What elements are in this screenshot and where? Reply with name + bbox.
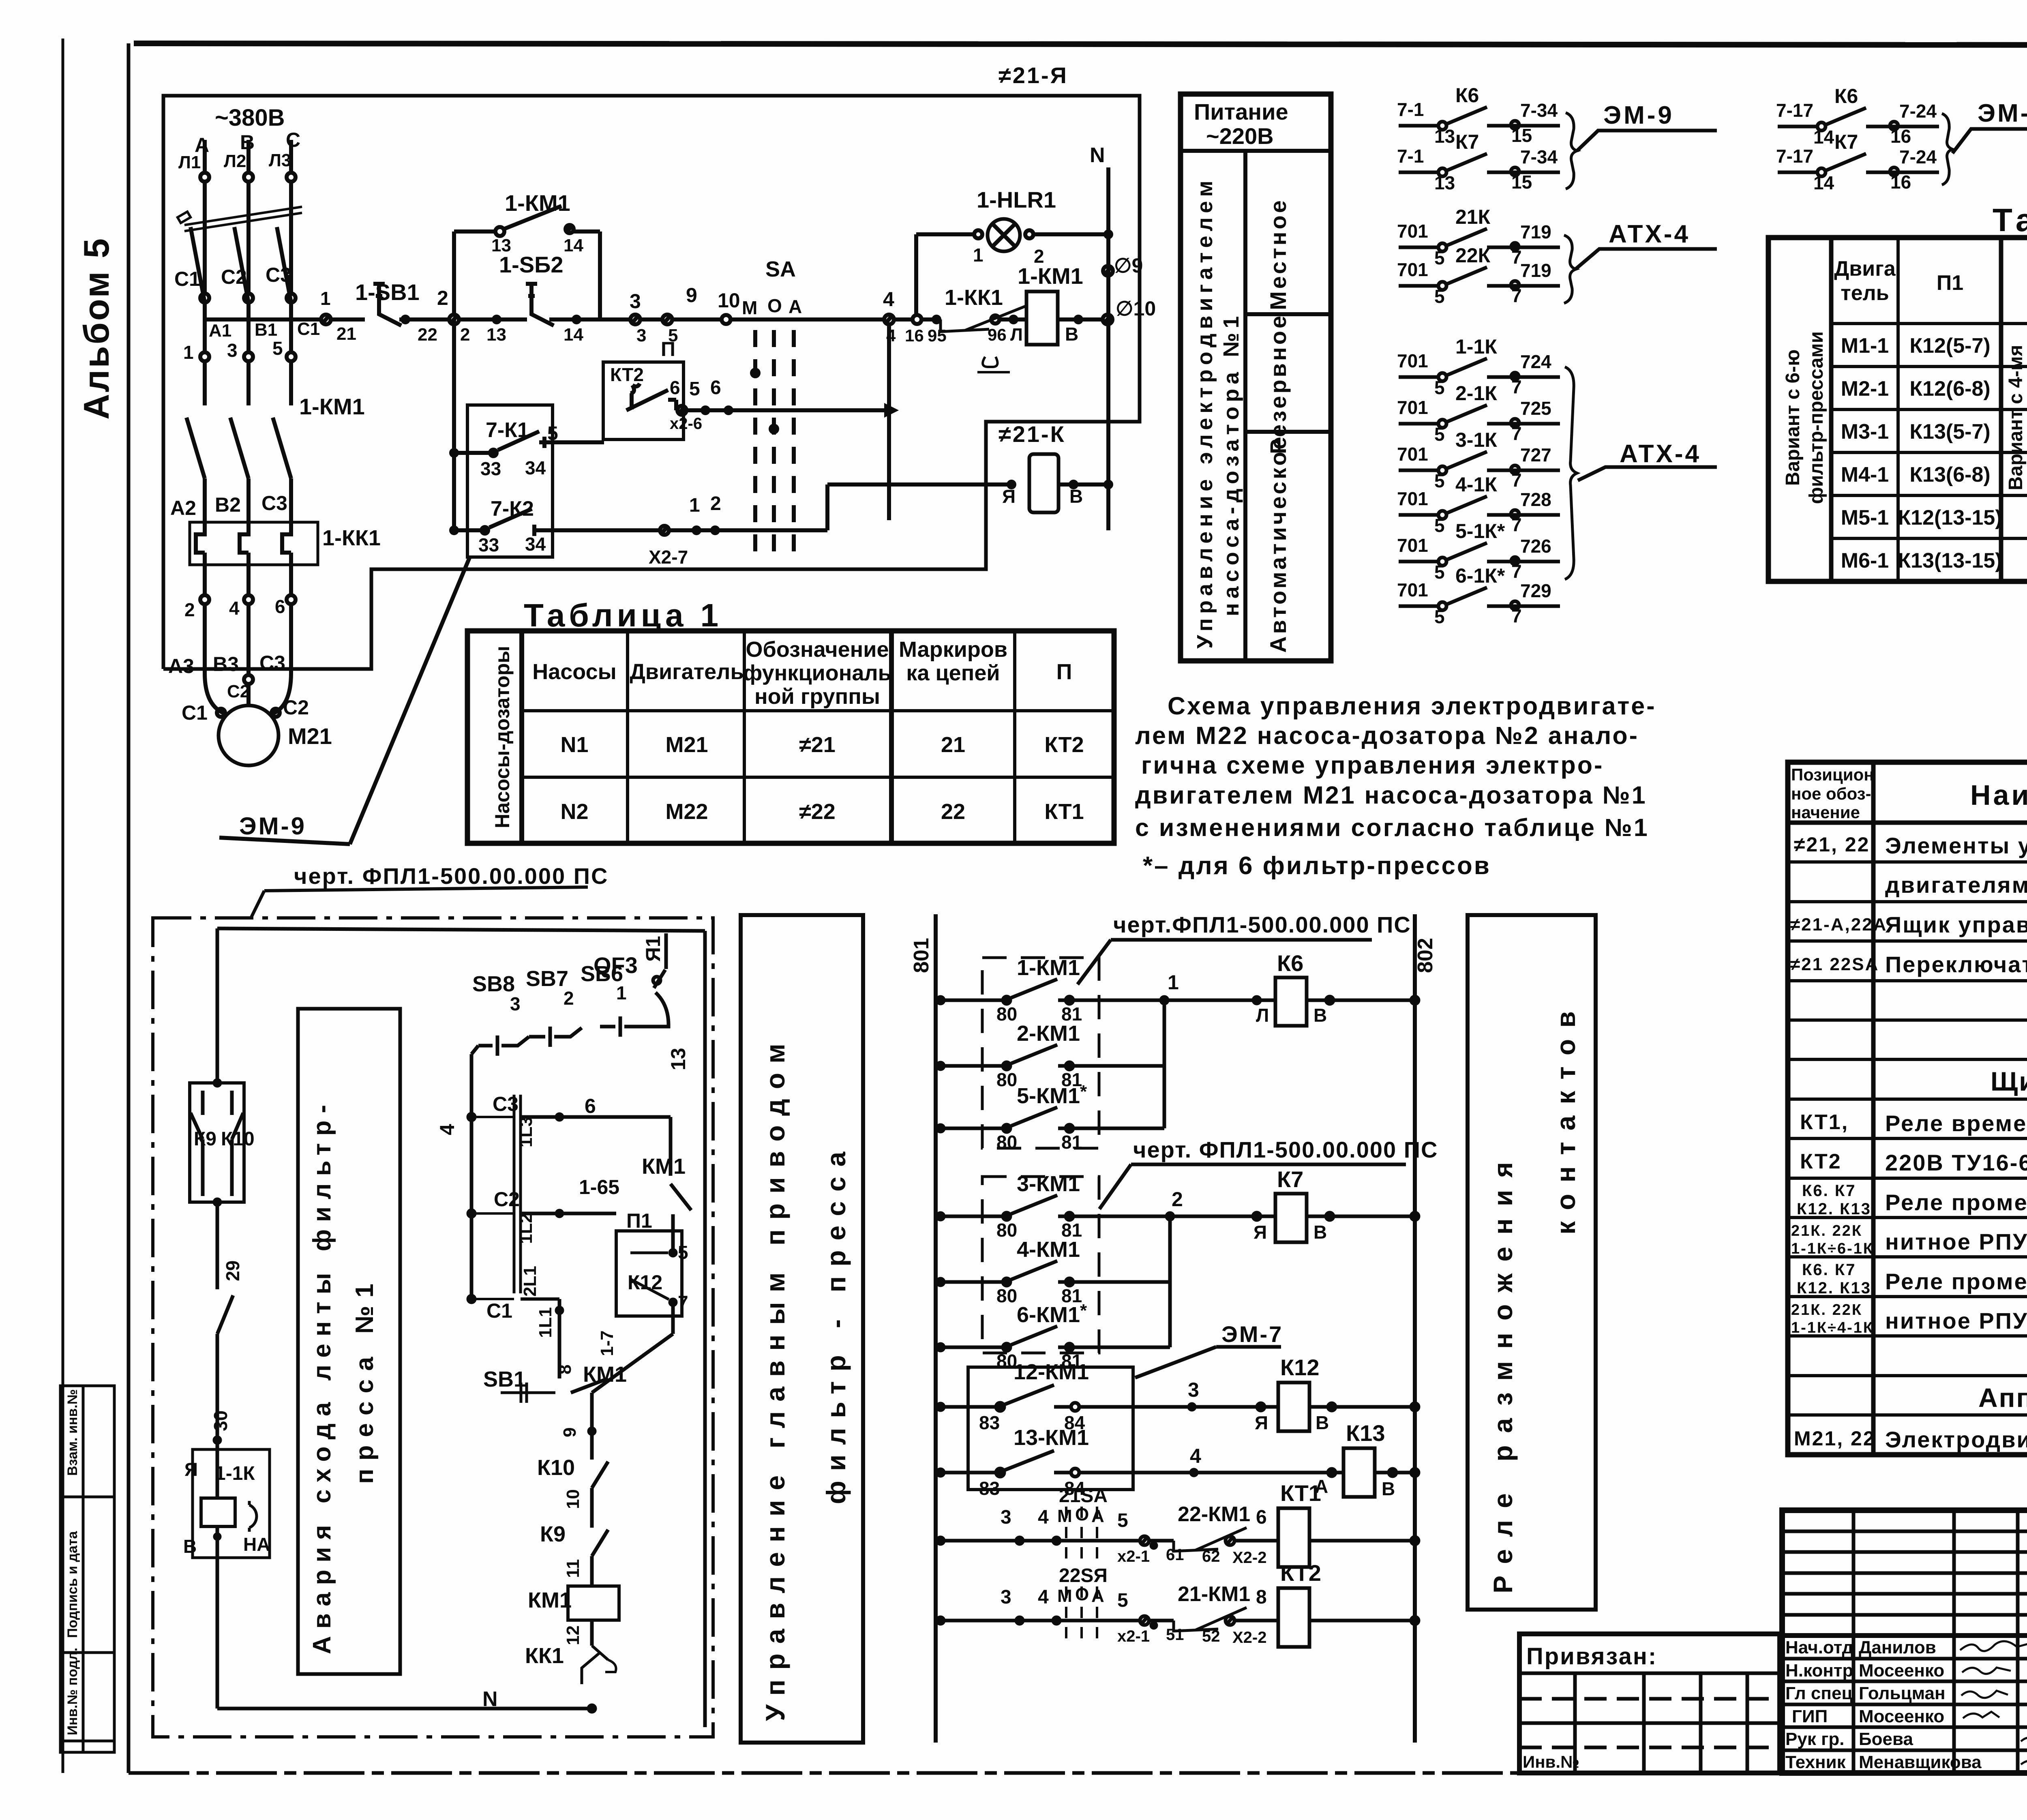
svg-text:80: 80: [996, 1069, 1017, 1090]
svg-text:ка цепей: ка цепей: [906, 661, 1000, 685]
svg-text:2L1: 2L1: [520, 1266, 540, 1297]
svg-text:8: 8: [1256, 1586, 1267, 1608]
svg-text:2: 2: [1172, 1188, 1183, 1211]
svg-text:21: 21: [336, 324, 356, 344]
svg-text:К6: К6: [1455, 84, 1479, 107]
svg-text:Местное: Местное: [1265, 198, 1291, 310]
svg-text:14: 14: [564, 236, 583, 255]
svg-text:5-1К*: 5-1К*: [1455, 520, 1505, 542]
svg-text:~380В: ~380В: [215, 105, 285, 131]
svg-text:ное обоз-: ное обоз-: [1791, 784, 1871, 803]
svg-text:4: 4: [1038, 1586, 1049, 1608]
svg-text:М21, 22: М21, 22: [1794, 1427, 1876, 1450]
svg-text:7: 7: [1511, 514, 1522, 535]
svg-text:5-КМ1*: 5-КМ1*: [1017, 1082, 1087, 1108]
svg-text:КТ2: КТ2: [1044, 733, 1084, 757]
svg-text:ной группы: ной группы: [754, 684, 880, 709]
svg-text:с изменениями согласно табли: с изменениями согласно таблице №1: [1135, 814, 1649, 841]
svg-text:Инв.№: Инв.№: [1523, 1752, 1579, 1771]
svg-text:х2-1: х2-1: [1117, 1627, 1150, 1645]
svg-text:12: 12: [563, 1625, 583, 1645]
svg-text:≠21-Я: ≠21-Я: [999, 62, 1068, 88]
svg-text:КТ2: КТ2: [1800, 1150, 1842, 1173]
svg-text:А: А: [1091, 1506, 1104, 1526]
svg-text:21К. 22К: 21К. 22К: [1791, 1222, 1862, 1239]
svg-text:х2-1: х2-1: [1117, 1548, 1150, 1565]
svg-text:7: 7: [678, 1292, 688, 1313]
svg-text:2-КМ1: 2-КМ1: [1017, 1021, 1080, 1046]
svg-text:5: 5: [272, 338, 283, 359]
svg-text:701: 701: [1397, 444, 1428, 465]
svg-text:Я: Я: [1255, 1412, 1268, 1433]
svg-text:Л: Л: [1010, 325, 1023, 345]
svg-text:83: 83: [979, 1412, 1000, 1433]
svg-text:Наименование: Наименование: [1970, 779, 2027, 811]
svg-text:АТХ-4: АТХ-4: [1620, 440, 1701, 468]
svg-text:14: 14: [1813, 126, 1834, 148]
svg-text:Х2-7: Х2-7: [649, 547, 688, 568]
svg-text:Насосы: Насосы: [532, 660, 616, 684]
svg-text:двигателями М21, М22: двигателями М21, М22: [1885, 872, 2027, 898]
svg-text:701: 701: [1397, 579, 1428, 600]
svg-text:SB7: SB7: [526, 967, 568, 991]
svg-text:1-1К: 1-1К: [1455, 335, 1497, 358]
svg-text:М: М: [1057, 1586, 1072, 1606]
svg-text:пресса №1: пресса №1: [351, 1276, 379, 1484]
svg-text:О: О: [767, 295, 782, 316]
svg-text:начение: начение: [1791, 803, 1860, 822]
svg-text:А2: А2: [170, 497, 196, 519]
svg-text:С3: С3: [261, 492, 287, 514]
svg-text:Позицион: Позицион: [1791, 765, 1874, 784]
svg-text:нитное РПУ2-М1440УХЛ4: нитное РПУ2-М1440УХЛ4: [1885, 1229, 2027, 1254]
svg-text:Н.контр: Н.контр: [1785, 1661, 1853, 1681]
svg-text:7: 7: [1511, 469, 1522, 491]
svg-text:К7: К7: [1277, 1166, 1303, 1192]
svg-text:6-1К*: 6-1К*: [1455, 564, 1505, 587]
svg-text:Я: Я: [184, 1459, 198, 1480]
svg-text:К13(6-8): К13(6-8): [1909, 463, 1990, 487]
svg-text:Инв.№ подл.: Инв.№ подл.: [65, 1648, 80, 1735]
svg-text:13-КМ1: 13-КМ1: [1013, 1426, 1089, 1450]
svg-text:К9: К9: [540, 1522, 566, 1546]
svg-text:В: В: [1313, 1005, 1327, 1026]
svg-text:3-1К: 3-1К: [1455, 429, 1497, 451]
svg-text:7-24: 7-24: [1899, 101, 1937, 122]
svg-text:Данилов: Данилов: [1859, 1638, 1936, 1657]
svg-text:Элементы управления электро-: Элементы управления электро-: [1885, 833, 2027, 858]
svg-text:7-К2: 7-К2: [491, 497, 534, 521]
svg-text:13: 13: [1434, 126, 1455, 147]
svg-text:719: 719: [1520, 221, 1551, 242]
svg-text:10: 10: [718, 289, 740, 312]
svg-text:КМ1: КМ1: [528, 1588, 572, 1612]
svg-text:SА: SА: [765, 257, 796, 281]
svg-text:С1: С1: [182, 701, 208, 724]
svg-text:719: 719: [1520, 260, 1551, 281]
svg-text:≠21: ≠21: [799, 733, 836, 757]
svg-text:1L1: 1L1: [536, 1307, 555, 1338]
svg-text:≠22: ≠22: [799, 800, 836, 824]
svg-text:К10: К10: [537, 1456, 575, 1480]
svg-text:КТ1: КТ1: [1280, 1480, 1321, 1506]
svg-text:1: 1: [183, 342, 194, 363]
svg-text:1-КК1: 1-КК1: [945, 285, 1003, 310]
svg-text:5: 5: [1434, 424, 1445, 445]
svg-text:2: 2: [564, 988, 574, 1009]
svg-text:1-SБ2: 1-SБ2: [499, 252, 564, 277]
svg-text:5: 5: [1434, 286, 1445, 307]
svg-text:21SА: 21SА: [1059, 1485, 1108, 1507]
svg-text:4-1К: 4-1К: [1455, 473, 1497, 496]
svg-text:КМ1: КМ1: [583, 1362, 627, 1387]
svg-text:7: 7: [1511, 561, 1522, 582]
svg-text:Мосеенко: Мосеенко: [1859, 1661, 1944, 1681]
svg-text:КТ1,: КТ1,: [1800, 1110, 1849, 1134]
svg-text:В: В: [1313, 1222, 1327, 1243]
svg-text:80: 80: [996, 1132, 1017, 1153]
svg-text:С2: С2: [227, 682, 250, 701]
svg-text:7: 7: [1511, 285, 1522, 306]
svg-text:∅9: ∅9: [1114, 254, 1143, 277]
svg-text:фильтр-прессами: фильтр-прессами: [1806, 331, 1827, 504]
svg-text:7-1: 7-1: [1397, 99, 1424, 120]
svg-text:3: 3: [1001, 1507, 1011, 1528]
svg-text:7-24: 7-24: [1899, 146, 1937, 167]
svg-text:22-КМ1: 22-КМ1: [1178, 1503, 1250, 1526]
svg-text:фильтр - пресса: фильтр - пресса: [821, 1142, 851, 1504]
svg-text:726: 726: [1520, 536, 1551, 557]
svg-text:К7: К7: [1834, 131, 1858, 153]
svg-text:А: А: [789, 296, 802, 317]
svg-text:В1: В1: [255, 320, 277, 340]
svg-text:К12. К13: К12. К13: [1797, 1279, 1871, 1297]
svg-text:5: 5: [1117, 1590, 1128, 1611]
svg-text:727: 727: [1520, 444, 1551, 465]
svg-text:Щит оператора: Щит оператора: [1991, 1066, 2027, 1096]
svg-text:5: 5: [1434, 606, 1445, 627]
svg-text:ЭМ-9: ЭМ-9: [1978, 99, 2027, 127]
svg-text:1: 1: [973, 244, 984, 266]
svg-text:В: В: [1069, 486, 1083, 507]
svg-text:34: 34: [525, 534, 546, 555]
svg-text:701: 701: [1397, 350, 1428, 371]
svg-text:Электродвигатель 2В90L4, 2.2: Электродвигатель 2В90L4, 2.2кВт: [1885, 1427, 2027, 1452]
svg-text:∅10: ∅10: [1116, 297, 1156, 320]
svg-text:7-1: 7-1: [1397, 146, 1424, 167]
svg-text:1-HLR1: 1-HLR1: [977, 187, 1056, 212]
svg-text:7-34: 7-34: [1520, 100, 1558, 121]
svg-text:С2: С2: [221, 266, 247, 288]
svg-text:5: 5: [689, 378, 700, 400]
svg-text:7: 7: [1511, 423, 1522, 444]
svg-text:В3: В3: [213, 653, 239, 675]
svg-text:Аппаратура по месту: Аппаратура по месту: [1978, 1383, 2027, 1413]
svg-text:ГИП: ГИП: [1792, 1706, 1828, 1726]
svg-text:М21: М21: [288, 723, 332, 749]
svg-text:1: 1: [1168, 971, 1179, 994]
svg-text:5: 5: [547, 423, 558, 444]
svg-text:22SЯ: 22SЯ: [1059, 1565, 1108, 1586]
svg-text:5: 5: [1434, 515, 1445, 536]
svg-text:Я: Я: [1253, 1222, 1267, 1243]
svg-text:81: 81: [1061, 1132, 1082, 1153]
svg-text:10: 10: [563, 1489, 583, 1509]
svg-text:13: 13: [1434, 172, 1455, 193]
svg-text:1: 1: [616, 982, 627, 1003]
svg-text:Управление главным приводом: Управление главным приводом: [760, 1034, 790, 1721]
svg-text:С3: С3: [259, 652, 285, 674]
svg-text:КТ2: КТ2: [610, 364, 644, 385]
svg-text:Автоматическое: Автоматическое: [1265, 434, 1291, 653]
svg-text:В: В: [240, 131, 255, 154]
svg-text:гична схеме управления эле: гична схеме управления электро-: [1141, 751, 1604, 779]
svg-text:КТ1: КТ1: [1044, 800, 1084, 824]
svg-text:К13(13-15): К13(13-15): [1898, 549, 2002, 572]
svg-text:М5-1: М5-1: [1841, 506, 1889, 529]
svg-text:К7: К7: [1455, 131, 1479, 153]
svg-text:21-КМ1: 21-КМ1: [1178, 1582, 1250, 1606]
svg-text:14: 14: [564, 325, 583, 345]
svg-text:5: 5: [1434, 470, 1445, 491]
svg-text:М3-1: М3-1: [1841, 420, 1889, 444]
svg-text:SB1: SB1: [483, 1367, 526, 1391]
svg-text:1-КМ1: 1-КМ1: [299, 394, 365, 419]
svg-text:7-34: 7-34: [1520, 146, 1558, 167]
svg-text:33: 33: [480, 458, 501, 479]
svg-text:С3: С3: [266, 264, 291, 286]
svg-text:Боева: Боева: [1859, 1729, 1913, 1749]
svg-text:Л3: Л3: [269, 150, 291, 170]
svg-text:83: 83: [979, 1478, 1000, 1499]
svg-text:К6. К7: К6. К7: [1802, 1182, 1856, 1200]
svg-text:3-КМ1: 3-КМ1: [1017, 1172, 1080, 1196]
svg-text:*– для 6 фильтр-прессов: *– для 6 фильтр-прессов: [1143, 852, 1491, 880]
svg-text:Таблица 1: Таблица 1: [524, 597, 722, 633]
svg-text:черт.ФПЛ1-500.00.000 ПС: черт.ФПЛ1-500.00.000 ПС: [1113, 912, 1411, 937]
svg-text:6: 6: [275, 596, 285, 617]
svg-text:КМ1: КМ1: [642, 1154, 686, 1179]
svg-text:Гл спец: Гл спец: [1785, 1683, 1853, 1703]
svg-text:Маркиров: Маркиров: [899, 637, 1007, 662]
svg-text:1-1К÷4-1К: 1-1К÷4-1К: [1791, 1319, 1874, 1336]
svg-text:К12(5-7): К12(5-7): [1909, 334, 1990, 358]
svg-text:3: 3: [1188, 1378, 1199, 1401]
svg-text:М: М: [742, 297, 757, 318]
svg-text:34: 34: [525, 457, 546, 478]
svg-text:21К: 21К: [1455, 206, 1491, 228]
svg-text:62: 62: [1202, 1548, 1220, 1565]
svg-text:2: 2: [184, 599, 195, 620]
svg-text:А: А: [1091, 1586, 1104, 1606]
svg-text:функциональ: функциональ: [743, 661, 891, 685]
svg-text:4: 4: [886, 326, 896, 345]
svg-text:Л: Л: [1256, 1005, 1269, 1026]
svg-text:Реле промежуточное электрома: Реле промежуточное электромаг-: [1885, 1269, 2027, 1294]
svg-text:701: 701: [1397, 397, 1428, 418]
svg-text:801: 801: [910, 938, 933, 973]
svg-text:Вариант с 4-мя: Вариант с 4-мя: [2005, 345, 2027, 491]
svg-text:черт. ФПЛ1-500.00.000 ПС: черт. ФПЛ1-500.00.000 ПС: [1133, 1137, 1438, 1162]
svg-text:33: 33: [478, 534, 499, 555]
svg-text:729: 729: [1520, 580, 1551, 601]
svg-text:П1: П1: [626, 1209, 652, 1232]
svg-text:N1: N1: [560, 733, 588, 757]
svg-text:3: 3: [227, 340, 238, 361]
svg-text:тель: тель: [1841, 281, 1889, 305]
svg-text:нитное РПУ-2-М1440УХЛ4: нитное РПУ-2-М1440УХЛ4: [1885, 1308, 2027, 1333]
svg-text:Мосеенко: Мосеенко: [1859, 1706, 1944, 1726]
svg-text:ЭМ-9: ЭМ-9: [239, 812, 306, 840]
svg-text:5: 5: [1117, 1510, 1128, 1531]
svg-text:Х2-2: Х2-2: [1232, 1629, 1267, 1646]
svg-text:К6: К6: [1277, 950, 1303, 976]
svg-text:К12: К12: [628, 1271, 662, 1294]
svg-text:КК1: КК1: [525, 1644, 564, 1668]
svg-text:Привязан:: Привязан:: [1526, 1643, 1657, 1670]
svg-text:К13: К13: [1346, 1420, 1385, 1446]
svg-text:Л2: Л2: [224, 151, 246, 171]
svg-text:Рук гр.: Рук гр.: [1785, 1729, 1845, 1749]
svg-text:725: 725: [1520, 398, 1551, 419]
svg-text:22К: 22К: [1455, 244, 1491, 267]
svg-text:4: 4: [229, 598, 240, 619]
svg-text:16: 16: [1890, 171, 1911, 193]
svg-text:НА: НА: [243, 1534, 270, 1555]
svg-text:2: 2: [710, 493, 721, 514]
svg-text:701: 701: [1397, 488, 1428, 509]
svg-text:П: П: [661, 338, 675, 360]
svg-text:В: В: [183, 1536, 197, 1557]
svg-text:22: 22: [941, 800, 965, 824]
svg-text:29: 29: [222, 1260, 243, 1281]
svg-text:3: 3: [636, 326, 646, 345]
svg-text:С1: С1: [486, 1299, 512, 1322]
svg-text:728: 728: [1520, 489, 1551, 510]
svg-text:21К. 22К: 21К. 22К: [1791, 1301, 1862, 1318]
svg-text:1: 1: [689, 495, 700, 516]
svg-text:К12(6-8): К12(6-8): [1909, 377, 1990, 401]
svg-text:7: 7: [1511, 376, 1522, 397]
svg-text:N: N: [482, 1687, 498, 1711]
svg-text:х2-6: х2-6: [670, 415, 702, 433]
svg-text:АТХ-4: АТХ-4: [1609, 220, 1690, 248]
svg-text:Гольцман: Гольцман: [1859, 1683, 1946, 1703]
svg-text:≠21 22SA: ≠21 22SA: [1790, 954, 1879, 974]
svg-text:лем М22 насоса-дозатора №2: лем М22 насоса-дозатора №2 анало-: [1135, 722, 1639, 749]
svg-text:1-1К÷6-1К: 1-1К÷6-1К: [1791, 1240, 1874, 1257]
svg-text:95: 95: [928, 326, 947, 345]
svg-text:К9: К9: [194, 1128, 216, 1150]
svg-text:Техник: Техник: [1785, 1752, 1846, 1772]
svg-text:М21: М21: [665, 733, 708, 757]
svg-text:≠21, 22: ≠21, 22: [1794, 833, 1870, 856]
svg-text:5: 5: [1434, 562, 1445, 583]
svg-text:2: 2: [437, 287, 448, 309]
svg-text:2: 2: [460, 325, 470, 345]
svg-text:П1: П1: [1937, 271, 1963, 295]
svg-text:М2-1: М2-1: [1841, 377, 1889, 401]
svg-text:М6-1: М6-1: [1841, 549, 1889, 572]
svg-text:Реле промежуточное электрома: Реле промежуточное электромаг-: [1885, 1190, 2027, 1215]
svg-text:15: 15: [1511, 125, 1532, 146]
svg-text:~220В: ~220В: [1206, 123, 1274, 149]
svg-text:4: 4: [1038, 1507, 1049, 1528]
svg-text:9: 9: [686, 284, 697, 307]
svg-text:6: 6: [710, 377, 721, 399]
svg-text:1L2: 1L2: [516, 1213, 536, 1244]
svg-text:Л1: Л1: [178, 152, 201, 172]
svg-text:30: 30: [210, 1411, 231, 1431]
svg-text:Альбом 5: Альбом 5: [76, 237, 116, 420]
svg-text:13: 13: [486, 325, 506, 345]
svg-text:К13(5-7): К13(5-7): [1909, 420, 1990, 444]
svg-text:К6: К6: [1834, 85, 1858, 107]
svg-text:N2: N2: [560, 800, 588, 824]
svg-text:3: 3: [1001, 1586, 1011, 1608]
svg-text:1-КК1: 1-КК1: [322, 526, 381, 550]
svg-text:1-65: 1-65: [579, 1176, 619, 1198]
svg-text:Переключатель ПКУ-3-12-С3033: Переключатель ПКУ-3-12-С3033: [1885, 952, 2027, 977]
svg-text:701: 701: [1397, 535, 1428, 556]
svg-text:К12: К12: [1280, 1355, 1319, 1380]
svg-text:≠21-А,22А: ≠21-А,22А: [1790, 915, 1887, 935]
svg-text:Схема управления электродви: Схема управления электродвигате-: [1168, 692, 1656, 720]
svg-text:Двига: Двига: [1834, 257, 1896, 281]
svg-text:220В ТУ16-647.036-86: 220В ТУ16-647.036-86: [1885, 1150, 2027, 1175]
svg-text:черт. ФПЛ1-500.00.000 ПС: черт. ФПЛ1-500.00.000 ПС: [294, 863, 609, 889]
svg-text:4: 4: [436, 1124, 459, 1135]
svg-text:С2: С2: [494, 1188, 520, 1211]
svg-text:16: 16: [1890, 126, 1911, 147]
svg-text:7-К1: 7-К1: [486, 418, 529, 442]
svg-text:С: С: [286, 129, 300, 151]
svg-text:В: В: [1316, 1412, 1329, 1433]
svg-text:51: 51: [1166, 1626, 1184, 1644]
svg-text:12-КМ1: 12-КМ1: [1013, 1360, 1089, 1384]
svg-text:В: В: [1382, 1478, 1395, 1499]
svg-text:Насосы-дозаторы: Насосы-дозаторы: [491, 646, 514, 828]
svg-text:N: N: [1090, 144, 1105, 167]
svg-text:802: 802: [1414, 938, 1437, 973]
svg-text:7-17: 7-17: [1776, 100, 1813, 121]
svg-text:Ящик управления Я5115-2874УХЛ: Ящик управления Я5115-2874УХЛ4: [1885, 912, 2027, 937]
svg-text:Х2-2: Х2-2: [1232, 1549, 1267, 1567]
svg-text:9: 9: [560, 1428, 580, 1437]
svg-text:Нач.отд: Нач.отд: [1785, 1638, 1853, 1657]
svg-text:насоса-дозатора №1: насоса-дозатора №1: [1219, 312, 1243, 616]
svg-text:6: 6: [670, 377, 680, 398]
svg-text:В: В: [1065, 324, 1078, 345]
svg-text:С2: С2: [283, 696, 309, 719]
svg-text:6: 6: [585, 1095, 596, 1117]
svg-text:Резервное: Резервное: [1265, 313, 1291, 454]
svg-text:Двигатель: Двигатель: [630, 660, 744, 684]
svg-text:Я: Я: [1002, 486, 1016, 507]
svg-text:ЭМ-7: ЭМ-7: [1221, 1321, 1283, 1347]
svg-text:Питание: Питание: [1194, 99, 1288, 124]
svg-text:11: 11: [563, 1559, 583, 1578]
svg-text:контактов: контактов: [1551, 1000, 1581, 1235]
svg-text:Вариант с 6-ю: Вариант с 6-ю: [1782, 349, 1804, 486]
svg-text:Обозначение: Обозначение: [746, 637, 889, 662]
svg-text:52: 52: [1202, 1627, 1220, 1645]
svg-text:≠21-К: ≠21-К: [999, 421, 1066, 447]
svg-text:О: О: [1075, 1505, 1089, 1524]
svg-text:О: О: [1075, 1584, 1089, 1604]
svg-text:П: П: [1056, 660, 1072, 684]
svg-text:1: 1: [320, 288, 331, 309]
